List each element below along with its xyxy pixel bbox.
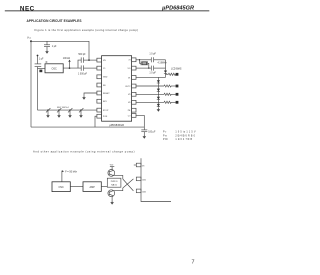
ground SW1 — [46, 113, 50, 117]
wire row4 end — [172, 101, 176, 103]
capacitor C4 1000pF — [81, 65, 83, 70]
capacitor C3 560pF — [81, 57, 83, 62]
ground pin L5 — [82, 95, 86, 99]
wire xtal right rail — [165, 60, 167, 71]
diode D2 — [157, 89, 160, 92]
IC U6 edge — [141, 158, 171, 201]
svg-text:1 µF: 1 µF — [52, 46, 57, 48]
wire ladder row1 — [136, 76, 166, 78]
node SW4 — [80, 109, 81, 110]
svg-text:XI: XI — [129, 60, 131, 62]
svg-text:V3: V3 — [128, 94, 131, 96]
svg-text:PON: PON — [103, 116, 108, 118]
terminal T4 — [176, 101, 179, 104]
svg-text:µPD6845GR: µPD6845GR — [109, 123, 124, 127]
wire D0 to ladder — [165, 73, 167, 77]
svg-text:STOP: STOP — [103, 110, 109, 112]
svg-text:NA 05: NA 05 — [111, 184, 118, 187]
wire row2 to pin — [84, 67, 97, 69]
node xtal row2 — [148, 67, 149, 68]
svg-text:VD: VD — [142, 165, 145, 167]
diode D1 — [157, 80, 160, 83]
svg-text:C1: C1 — [103, 68, 106, 70]
driver block U5 — [107, 178, 121, 187]
node J2 — [88, 59, 90, 61]
wire xtal row1 — [136, 59, 151, 61]
terminal T3 — [176, 93, 179, 96]
ground ladder — [157, 107, 161, 111]
crystal X1 — [39, 70, 42, 73]
node supply 2 — [37, 55, 39, 57]
svg-text:Figure 1 is the first applicat: Figure 1 is the first application exampl… — [35, 28, 139, 32]
svg-text:OUT2: OUT2 — [125, 86, 131, 88]
ground C5 — [143, 134, 147, 138]
VDD bar — [110, 167, 114, 170]
switch SW3 — [68, 108, 72, 113]
pin labels left — [103, 60, 110, 118]
wire ladder row2 — [136, 85, 164, 87]
wire Q2 drain — [113, 188, 123, 191]
svg-text:FB: FB — [103, 85, 106, 87]
capacitor C6 10pF — [151, 57, 153, 62]
svg-text:100 kΩ: 100 kΩ — [63, 58, 71, 60]
svg-text:1 000 pF: 1 000 pF — [78, 73, 88, 75]
switch SW2 — [57, 108, 61, 113]
wire cross B — [123, 179, 134, 188]
header rule — [5, 9, 210, 12]
wire pin L8 down — [95, 116, 97, 127]
pin R2 — [132, 66, 136, 70]
svg-text:100 µF: 100 µF — [148, 132, 156, 134]
label driver — [111, 181, 118, 186]
svg-text:560 pF: 560 pF — [78, 54, 86, 56]
svg-text:V4: V4 — [128, 102, 131, 104]
capacitor C5 100uF — [141, 130, 147, 135]
wire top tap — [166, 73, 169, 75]
wire row3 end — [172, 93, 176, 95]
wire to oscillator box — [38, 68, 46, 70]
ground SW4 — [79, 113, 83, 117]
pin U6-3 — [136, 189, 141, 193]
ground Q2 — [110, 200, 114, 204]
pin R6 — [132, 100, 136, 104]
pin U6-2 — [136, 177, 141, 181]
svg-text:PIN 2/3/4/5/6 R B 0: PIN 2/3/4/5/6 R B 0 — [163, 135, 196, 137]
polarity mark — [46, 61, 48, 63]
svg-text:F = 50 kHz: F = 50 kHz — [65, 170, 77, 173]
pin L6 — [97, 99, 102, 103]
ground SW3 — [68, 113, 72, 117]
pin R5 — [132, 92, 136, 96]
pin R3 — [132, 76, 136, 80]
wire inner rail lower — [37, 67, 39, 111]
svg-text:PIN 1 2/3 4 7/9 B: PIN 1 2/3 4 7/9 B — [163, 139, 192, 141]
svg-text:OSC: OSC — [52, 68, 57, 71]
switch SW1 — [46, 108, 50, 113]
svg-text:And other application example: And other application example (using ext… — [33, 149, 135, 153]
pin R8 — [132, 114, 136, 118]
pin labels right — [125, 60, 131, 118]
svg-text:VIN: VIN — [103, 60, 106, 62]
wire xtal row1 right — [154, 59, 166, 61]
svg-text:PO 1 0 5 to 1 1 5 V: PO 1 0 5 to 1 1 5 V — [163, 130, 196, 133]
resistor R2 — [168, 73, 176, 75]
svg-text:RESET: RESET — [103, 93, 110, 95]
notes text — [163, 130, 196, 141]
svg-text:KEY: KEY — [103, 101, 108, 103]
svg-text:LCD BIAS: LCD BIAS — [171, 68, 182, 71]
node xtal row1 — [139, 59, 140, 60]
svg-text:VDD: VDD — [110, 164, 114, 166]
pin R7 — [132, 108, 136, 112]
terminal T1 — [176, 73, 179, 76]
node J1 — [69, 67, 71, 69]
ground C1 — [45, 49, 49, 53]
diode D3 — [157, 97, 160, 100]
diode D4 — [157, 104, 160, 107]
ground SW2 — [57, 113, 61, 117]
svg-text:CB2: CB2 — [142, 191, 147, 193]
pin L1 — [97, 58, 102, 62]
resistor R3 — [164, 85, 172, 87]
wire pin R8 to C5 — [136, 115, 144, 129]
wire key bus — [38, 109, 97, 111]
svg-text:NEC: NEC — [20, 5, 35, 12]
svg-text:AMP: AMP — [90, 186, 96, 189]
amplifier box U4 — [83, 182, 101, 192]
switch SW4 — [79, 108, 83, 113]
wire chain bottom — [157, 102, 159, 107]
svg-text:PWR S: PWR S — [111, 181, 118, 183]
pin L3 — [97, 75, 102, 79]
pin L5 — [97, 91, 102, 95]
svg-text:1 0 pF: 1 0 pF — [149, 72, 156, 74]
resistor R1 arrow — [68, 60, 70, 69]
wire xtal row2 right — [154, 67, 166, 69]
wire bottom rail — [31, 126, 144, 128]
resistor R4 — [164, 93, 172, 95]
wire branch row1 — [78, 60, 81, 68]
svg-text:1 µF: 1 µF — [39, 59, 44, 61]
pin R1 — [132, 58, 136, 62]
node SW1 — [47, 109, 48, 110]
node Vcc — [30, 40, 32, 42]
capacitor C1 — [44, 41, 50, 49]
svg-text:GND: GND — [103, 77, 108, 79]
resistor R5 — [164, 101, 172, 103]
IC U1 body — [102, 56, 132, 122]
pin L7 — [97, 108, 102, 112]
crystal X2 — [140, 60, 149, 68]
svg-text:V1: V1 — [128, 77, 131, 79]
wire Q1 drain — [113, 175, 123, 179]
svg-text:OSC: OSC — [59, 186, 64, 189]
node SW3 — [69, 109, 70, 110]
wire osc output — [63, 67, 81, 69]
wire row2 end — [172, 85, 176, 87]
svg-text:CO: CO — [128, 115, 131, 117]
capacitor C7 10pF — [151, 66, 153, 71]
terminal T2 — [176, 85, 179, 88]
pin U6-1 — [134, 163, 141, 167]
wire ladder chain — [157, 77, 159, 102]
transistor Q1 — [108, 170, 115, 177]
wire row1 to pin — [84, 59, 97, 61]
wire xtal row2 — [136, 67, 151, 69]
svg-text:1 0 pF: 1 0 pF — [149, 54, 156, 56]
svg-text:7: 7 — [192, 260, 195, 266]
wire amp out — [101, 186, 107, 188]
wire left outer rail — [30, 41, 32, 127]
label F frequency — [62, 170, 64, 182]
svg-text:VCC: VCC — [27, 37, 32, 40]
wire osc-amp — [70, 186, 83, 188]
pin L2 — [97, 66, 102, 70]
transistor Q2 — [108, 190, 115, 197]
wire inner rail upper — [37, 56, 39, 64]
pin L8 — [97, 114, 102, 118]
svg-text:KEY SW1-4: KEY SW1-4 — [57, 107, 69, 109]
pin L4 — [97, 83, 102, 87]
oscillator box U2 — [45, 64, 63, 73]
diode D0 — [164, 71, 167, 74]
pin R4 — [132, 84, 136, 88]
wire ladder row3 — [136, 93, 164, 95]
wire ground stem Q2 — [111, 197, 113, 201]
wire pin L5 ground — [84, 93, 97, 95]
wire cross A — [123, 179, 134, 191]
svg-text:4.19MHz: 4.19MHz — [158, 62, 168, 64]
svg-text:APPLICATION CIRCUIT EXAMPLES: APPLICATION CIRCUIT EXAMPLES — [27, 19, 82, 23]
node SW2 — [58, 109, 59, 110]
wire ladder row4 — [136, 101, 164, 103]
svg-text:CB1: CB1 — [142, 179, 147, 181]
oscillator box U3 — [52, 182, 70, 192]
svg-text:PE: PE — [128, 110, 131, 112]
wire Vcc top rail — [31, 41, 89, 60]
capacitor C2 — [35, 64, 42, 67]
svg-text:XO: XO — [128, 68, 131, 70]
